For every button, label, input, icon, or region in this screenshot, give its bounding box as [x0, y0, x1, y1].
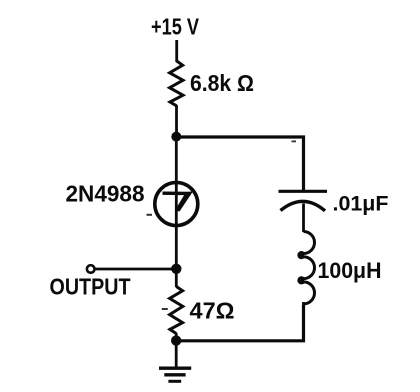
wire: output terminal to node B [95, 268, 177, 271]
capacitor C1 [279, 191, 328, 211]
output terminal (open circle) [87, 265, 95, 273]
wire: node A to right branch top corner [176, 137, 303, 190]
resistor R1 [170, 61, 183, 106]
value label .01μF [333, 193, 389, 216]
transistor Q1 2N4988 [155, 183, 198, 227]
ground [159, 341, 191, 382]
svg-text:.01μF: .01μF [333, 193, 389, 216]
value label 100μH [318, 258, 382, 283]
svg-text:OUTPUT: OUTPUT [50, 274, 131, 300]
node A junction dot [171, 132, 181, 142]
resistor R2 [170, 287, 183, 334]
node C junction dot [171, 335, 181, 345]
svg-text:2N4988: 2N4988 [66, 180, 145, 206]
wire: C1 bottom plate to inductor L1 [302, 204, 305, 233]
svg-text:+15 V: +15 V [151, 14, 200, 40]
wire: L1 to bottom corner [302, 302, 305, 341]
inductor L1 [298, 232, 314, 304]
wire: +15V supply to resistor R1 [175, 40, 178, 62]
label OUTPUT [50, 274, 131, 300]
value label 6.8k Ω [190, 70, 254, 96]
wire: R2 to node C [175, 333, 178, 341]
wire: node C to right branch bottom corner [176, 305, 303, 341]
svg-text:47Ω: 47Ω [190, 298, 235, 324]
wire: Q1 bottom to node B [175, 225, 178, 269]
node B junction dot [171, 264, 181, 274]
wire: R1 to node A [175, 105, 178, 137]
wire: node A to Q1 top [175, 137, 178, 183]
supply label +15 V [151, 14, 200, 40]
value label 47Ω [190, 298, 235, 324]
device label 2N4988 [66, 180, 145, 206]
svg-text:100μH: 100μH [318, 258, 382, 283]
svg-text:6.8k Ω: 6.8k Ω [190, 70, 254, 96]
wire: node B to resistor R2 [175, 269, 178, 287]
